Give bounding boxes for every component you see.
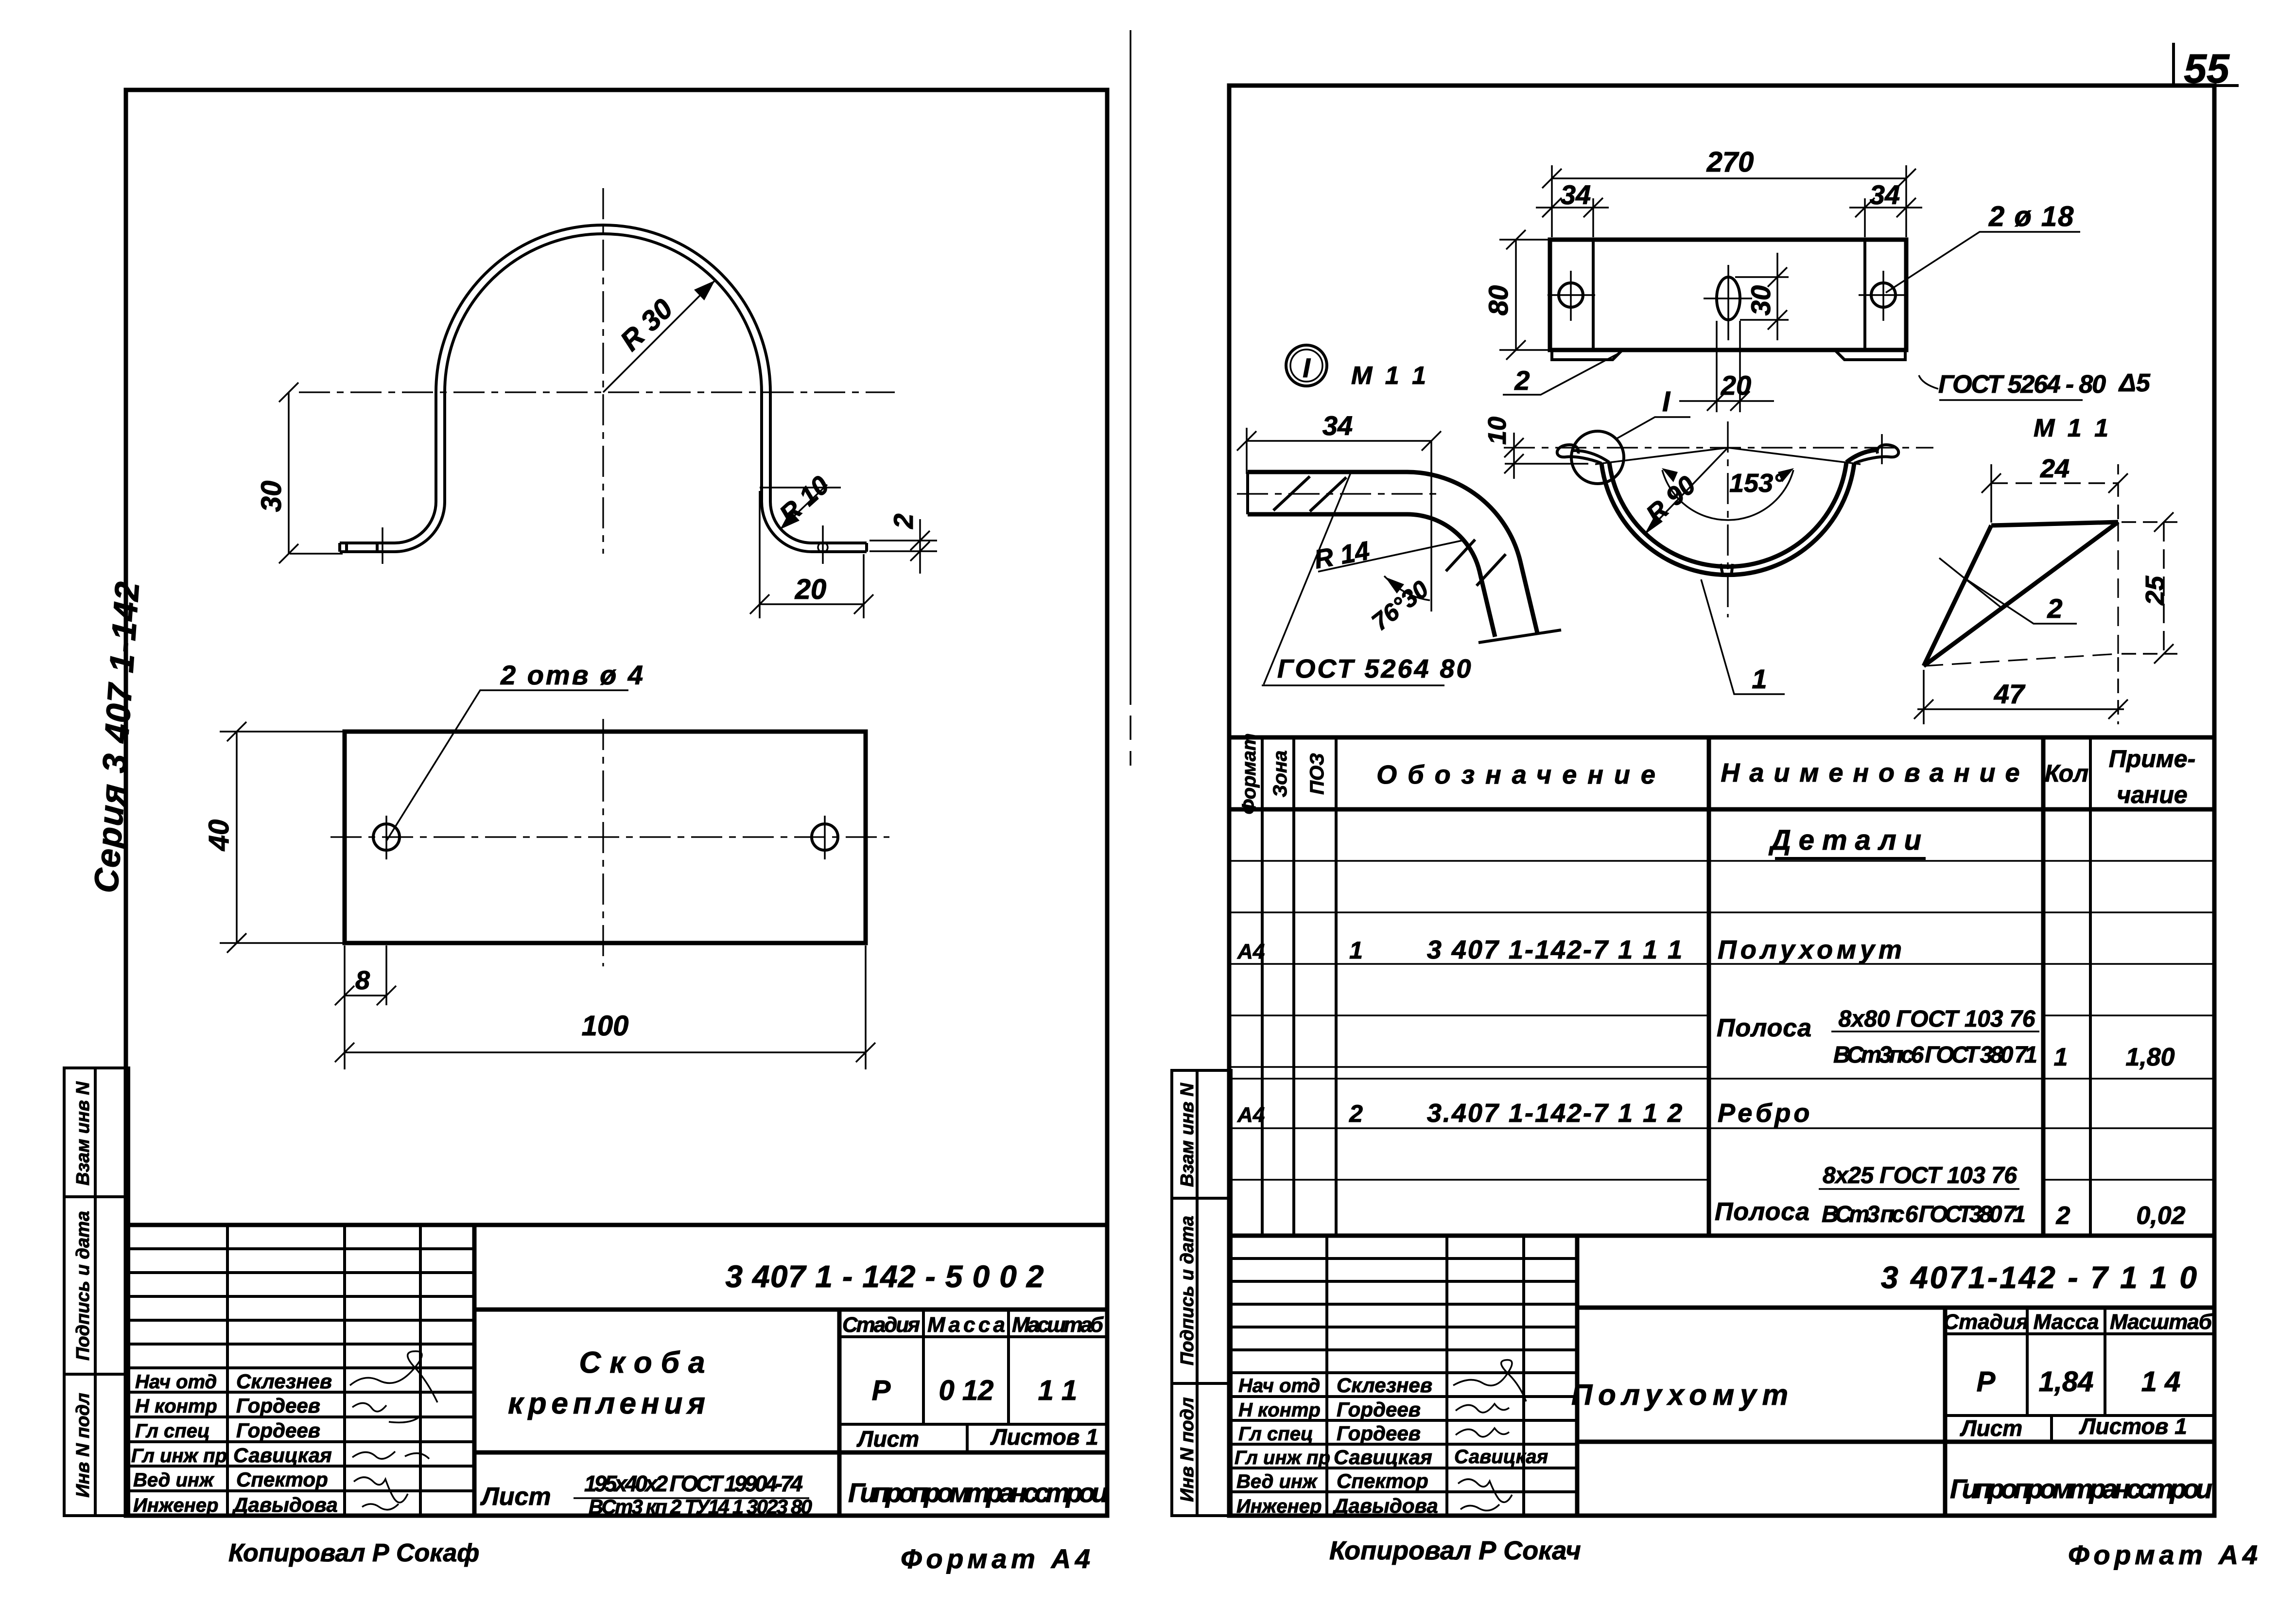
svg-text:3 407 1-142-7 1 1 1: 3 407 1-142-7 1 1 1 <box>1427 935 1684 964</box>
svg-text:Давыдова: Давыдова <box>232 1493 338 1516</box>
svg-text:Ребро: Ребро <box>1718 1099 1812 1128</box>
row line 6 <box>1231 1078 2214 1080</box>
svg-text:Н контр: Н контр <box>1238 1399 1321 1421</box>
detail mark I circle <box>1286 345 1327 386</box>
масса col line <box>2104 1308 2106 1416</box>
dim 100 extension left <box>344 945 346 1069</box>
angle arc 153 <box>1662 470 1793 520</box>
dim 30 line <box>288 392 290 554</box>
svg-text:Гл инж пр: Гл инж пр <box>1235 1447 1330 1468</box>
bottom right weld tab <box>1835 350 1905 360</box>
dim 20 slot extension left <box>1716 321 1718 412</box>
svg-text:Инв N подл: Инв N подл <box>1177 1397 1198 1502</box>
row line 1 <box>1231 860 2214 862</box>
dim 47 ext left <box>1923 670 1925 724</box>
dim 270 extension left <box>1551 165 1553 237</box>
col Примечание line <box>2089 737 2092 1236</box>
signature area top line <box>126 1366 474 1369</box>
dim 25 arrow slashes <box>2154 512 2174 532</box>
svg-text:Вед инж: Вед инж <box>133 1469 215 1491</box>
svg-text:8х25 ГОСТ 103 76: 8х25 ГОСТ 103 76 <box>1823 1163 2017 1189</box>
svg-text:Кол: Кол <box>2045 760 2088 787</box>
R30 radius line <box>603 280 715 392</box>
R10 extension line <box>760 487 841 489</box>
svg-text:ГОСТ 5264 80: ГОСТ 5264 80 <box>1277 654 1473 683</box>
svg-text:2: 2 <box>2047 593 2062 624</box>
svg-text:Листов 1: Листов 1 <box>990 1424 1098 1450</box>
svg-text:Масса: Масса <box>927 1313 1005 1337</box>
page number 55 <box>2168 43 2239 91</box>
signature squiggle 1 <box>1453 1360 1526 1401</box>
svg-text:47: 47 <box>1994 679 2026 709</box>
svg-text:20: 20 <box>1721 370 1751 401</box>
ГОСТ 5264 80 underline <box>1262 684 1444 686</box>
стадия col line <box>922 1310 925 1424</box>
dim 47 arrow slashes <box>1914 699 1933 719</box>
signature squiggle 6 <box>1461 1504 1499 1511</box>
svg-text:Склезнев: Склезнев <box>236 1370 332 1393</box>
label 2 cross tick <box>1939 558 2002 609</box>
right tab inner line <box>1863 240 1866 350</box>
dim 40 extension top <box>220 731 346 733</box>
signature squiggle 3 <box>1456 1428 1509 1437</box>
sheet 2 left margin stamp boxes <box>1172 1070 1231 1516</box>
left hole tick <box>385 816 387 859</box>
svg-text:Масштаб: Масштаб <box>2110 1310 2213 1334</box>
dim 2 extension bottom <box>870 550 937 552</box>
dim 80 extension bottom <box>1499 349 1551 351</box>
R90 radius line <box>1644 448 1728 535</box>
angle radius line left <box>1595 448 1728 464</box>
detail circle leader <box>1616 417 1690 439</box>
dim 20 line <box>760 603 864 605</box>
svg-text:1: 1 <box>1349 937 1363 964</box>
svg-text:М 1 1: М 1 1 <box>2034 414 2111 442</box>
svg-text:Полоса: Полоса <box>1717 1014 1811 1042</box>
dim 20 arrow slashes <box>750 594 769 614</box>
right foot hole centerline tick <box>822 525 824 564</box>
dim 40 extension bottom <box>220 942 346 944</box>
bar top edge <box>1248 470 1406 474</box>
dim 2 line <box>919 519 921 574</box>
signature squiggle 2 <box>1456 1404 1509 1413</box>
signature squiggle 1 <box>350 1351 437 1402</box>
sidebar row line 2 <box>64 1373 129 1376</box>
dim 10 line <box>1513 433 1515 479</box>
material fraction bar <box>574 1497 809 1499</box>
svg-text:20: 20 <box>795 574 827 605</box>
dim 24 arrow slashes <box>1982 473 2001 493</box>
dim 8 arrow slashes <box>335 986 354 1005</box>
svg-text:Гипропромтрансстрои: Гипропромтрансстрои <box>848 1477 1108 1508</box>
angle arrow <box>1385 577 1404 594</box>
svg-text:Спектор: Спектор <box>236 1468 328 1491</box>
svg-text:Детали: Детали <box>1768 824 1929 856</box>
dim 34 right extension <box>1864 198 1866 237</box>
svg-text:Формат А4: Формат А4 <box>2068 1539 2258 1570</box>
svg-text:Листов 1: Листов 1 <box>2079 1414 2187 1439</box>
svg-text:195х40х2 ГОСТ 19904-74: 195х40х2 ГОСТ 19904-74 <box>584 1471 803 1496</box>
signature area top line <box>1231 1371 1577 1374</box>
svg-text:Формат А4: Формат А4 <box>901 1543 1090 1574</box>
svg-text:ВСт3 пс 6 ГОСТ380 71: ВСт3 пс 6 ГОСТ380 71 <box>1822 1202 2026 1227</box>
dim 34 left line <box>1536 207 1609 209</box>
row line 4 left part <box>1231 1014 1709 1016</box>
svg-text:8х80 ГОСТ 103 76: 8х80 ГОСТ 103 76 <box>1839 1006 2035 1032</box>
svg-text:Полухомут: Полухомут <box>1718 935 1906 964</box>
svg-text:80: 80 <box>1483 285 1513 315</box>
column line names/signs <box>343 1225 346 1516</box>
right hole tick <box>824 816 826 859</box>
rib diagonal <box>1924 522 2118 666</box>
signature squiggle 4 <box>352 1451 429 1459</box>
лист/листов divider <box>966 1424 969 1452</box>
svg-text:I: I <box>1303 352 1311 383</box>
svg-text:Инженер: Инженер <box>1236 1496 1322 1517</box>
header bottom line <box>1231 807 2214 812</box>
dim 10 arrow slashes <box>1504 438 1524 457</box>
svg-text:Копировал Р Сокач: Копировал Р Сокач <box>1329 1536 1581 1565</box>
half-clamp front view (bowl) <box>1483 386 1933 694</box>
dim 20 extension left <box>759 491 761 618</box>
sidebar row line 1 <box>64 1195 129 1198</box>
R30 arrowhead <box>694 280 715 300</box>
dim 80 extension top <box>1499 239 1551 241</box>
dim 30 slot extension top <box>1735 276 1789 278</box>
sheet 2 title block <box>1231 1236 2214 1517</box>
designation cell bottom line <box>474 1308 1107 1312</box>
dim 30 slot line <box>1776 253 1778 340</box>
plate outline <box>1550 240 1906 350</box>
bend end cut line <box>1478 630 1561 643</box>
row line 7 <box>1231 1127 2214 1129</box>
svg-text:Инв N подл: Инв N подл <box>73 1393 93 1497</box>
svg-text:10: 10 <box>1483 417 1512 445</box>
svg-text:Гл инж пр: Гл инж пр <box>131 1445 227 1467</box>
svg-text:1 4: 1 4 <box>2141 1366 2181 1398</box>
svg-text:25: 25 <box>2140 576 2170 606</box>
dim 270 arrow slashes <box>1542 169 1562 188</box>
svg-text:Подпись и дата: Подпись и дата <box>1177 1216 1198 1365</box>
svg-text:Масштаб: Масштаб <box>1012 1313 1104 1337</box>
стадия values bottom <box>1945 1414 2214 1417</box>
fold divider line between sheets <box>1130 30 1131 766</box>
omega clamp drawing (Скоба) <box>256 188 937 618</box>
right hole <box>812 824 838 850</box>
signature row lines <box>1231 1395 1577 1398</box>
svg-text:Давыдова: Давыдова <box>1332 1494 1438 1517</box>
svg-text:Р: Р <box>872 1375 891 1406</box>
dim 10 ext line <box>1505 463 1588 465</box>
column line roles/names <box>226 1225 229 1516</box>
row line 2 <box>1231 911 2214 913</box>
svg-text:Копировал Р Сокаф: Копировал Р Сокаф <box>228 1539 479 1567</box>
right hole <box>1871 283 1896 307</box>
svg-text:Взам инв N: Взам инв N <box>1177 1083 1198 1187</box>
dim 80 arrow slashes <box>1506 230 1526 249</box>
svg-text:Спектор: Спектор <box>1337 1469 1428 1492</box>
column line signs/dates <box>419 1225 422 1516</box>
rib bottom edge dashed <box>1924 654 2118 666</box>
dim 24 ext left <box>1990 464 1992 523</box>
bottom left weld tab <box>1552 350 1622 360</box>
svg-text:2: 2 <box>1514 365 1530 396</box>
right foot end cap <box>865 543 868 552</box>
dim 2 extension top <box>870 540 937 542</box>
R10 arrowhead <box>780 510 800 529</box>
left foot end cap <box>338 543 341 552</box>
svg-text:Гордеев: Гордеев <box>236 1419 320 1442</box>
dim 30 extension line bottom <box>290 553 343 555</box>
svg-text:Гордеев: Гордеев <box>1337 1422 1421 1445</box>
svg-text:ВСт3 кп 2 ТУ14 1 3023 80: ВСт3 кп 2 ТУ14 1 3023 80 <box>589 1495 812 1518</box>
label 2 отв ф4 leader <box>386 690 628 841</box>
svg-text:Склезнев: Склезнев <box>1337 1374 1432 1397</box>
svg-text:2 отв ø 4: 2 отв ø 4 <box>500 660 645 690</box>
bowl outer arc <box>1601 463 1854 575</box>
title block top line <box>126 1223 1107 1227</box>
dim 30 slot extension bottom <box>1740 319 1789 321</box>
svg-text:0 12: 0 12 <box>939 1375 994 1406</box>
dim 2 arrow slashes <box>910 531 930 550</box>
dim 20 extension right <box>863 554 865 618</box>
svg-text:М 1 1: М 1 1 <box>1351 362 1429 390</box>
column line roles/names <box>1325 1236 1328 1516</box>
col Поз line <box>1335 737 1338 1236</box>
left hole crosshair <box>1548 294 1595 296</box>
label 2ф18 leader <box>1886 232 2080 293</box>
svg-text:Формат: Формат <box>1238 734 1260 815</box>
svg-text:Обозначение: Обозначение <box>1376 760 1666 789</box>
bowl inner arc <box>1609 462 1846 567</box>
horizontal centerline <box>1504 447 1933 448</box>
sheet 1 left margin stamp boxes <box>64 1068 129 1516</box>
signature row lines <box>126 1391 474 1394</box>
R90 arrowhead <box>1644 514 1663 535</box>
svg-text:чание: чание <box>2117 781 2188 808</box>
svg-text:I: I <box>1662 386 1671 418</box>
svg-text:8: 8 <box>355 966 370 995</box>
right hole crosshair <box>1859 294 1908 296</box>
name/stage divider vertical <box>837 1310 842 1516</box>
лист/листов divider <box>2050 1416 2053 1442</box>
specification table <box>1231 734 2214 1236</box>
plate outline <box>345 732 866 943</box>
dim 47 ext right <box>2117 657 2119 724</box>
signature squiggle 5 <box>1458 1479 1512 1502</box>
svg-text:Наименование: Наименование <box>1721 758 2029 787</box>
svg-text:30: 30 <box>1745 285 1776 315</box>
bar left cap <box>1246 472 1249 514</box>
svg-text:30: 30 <box>256 481 287 512</box>
svg-text:34: 34 <box>1561 179 1591 210</box>
dim 40 line <box>236 732 238 943</box>
svg-text:Масса: Масса <box>2033 1310 2099 1334</box>
title block top line <box>1231 1234 2214 1238</box>
svg-text:1: 1 <box>2054 1043 2068 1071</box>
sidebar row line 1 <box>1172 1197 1231 1200</box>
dim 8 extension hole <box>385 945 387 1005</box>
svg-text:Δ5: Δ5 <box>2118 369 2151 397</box>
angle radius line right <box>1728 448 1861 464</box>
dim 100 arrow slashes <box>335 1043 354 1062</box>
svg-text:Полухомут: Полухомут <box>1571 1379 1794 1411</box>
svg-text:1 1: 1 1 <box>1038 1375 1078 1406</box>
стадия header bottom <box>839 1335 1107 1338</box>
svg-text:Гордеев: Гордеев <box>236 1394 320 1417</box>
svg-text:3.407 1-142-7 1 1 2: 3.407 1-142-7 1 1 2 <box>1427 1099 1684 1128</box>
svg-text:Нач отд: Нач отд <box>135 1371 217 1393</box>
sheet 2 drawing frame border <box>1229 86 2214 1516</box>
dim 270 line <box>1552 177 1906 179</box>
dim 100 line <box>345 1051 866 1053</box>
dim 34 right line <box>1849 207 1922 209</box>
svg-text:крепления: крепления <box>508 1387 710 1420</box>
dim 20 slot line <box>1679 400 1774 402</box>
dim 24 line <box>1991 482 2118 484</box>
svg-text:Гордеев: Гордеев <box>1337 1398 1421 1421</box>
масса col line <box>1007 1310 1010 1424</box>
svg-text:Нач отд: Нач отд <box>1238 1375 1320 1397</box>
Детали underline <box>1775 857 1926 860</box>
weld hatch marks on bar <box>1273 476 1310 510</box>
vertical centerline <box>1727 421 1728 617</box>
right tab curl <box>1854 445 1898 463</box>
стадия header bottom <box>1945 1332 2214 1335</box>
col Формат line <box>1261 737 1264 1236</box>
bowl bottom gap tick <box>1721 564 1723 576</box>
svg-text:ГОСТ 5264 - 80: ГОСТ 5264 - 80 <box>1938 370 2106 399</box>
column line signs/dates <box>1522 1236 1525 1516</box>
row line 8 right part <box>2043 1179 2214 1181</box>
label 2 leader <box>1965 578 2077 624</box>
left tab curl <box>1557 445 1601 463</box>
rib hypotenuse <box>1924 525 1991 666</box>
dim 24 ext right tick <box>2117 464 2119 519</box>
signature squiggle 2 <box>352 1403 386 1411</box>
dim 25 ext top <box>2122 521 2177 523</box>
dim 34 arrow slashes <box>1237 431 1256 451</box>
dim 100 extension right <box>865 945 867 1069</box>
sheet 1 title block <box>126 1225 1108 1518</box>
svg-text:Лист: Лист <box>856 1426 919 1451</box>
table top line <box>1231 735 2214 740</box>
svg-text:1,84: 1,84 <box>2039 1366 2094 1398</box>
row1 material fraction bar <box>1831 1031 2039 1032</box>
col Обозначение line <box>1707 737 1711 1236</box>
col Кол line <box>2041 737 2046 1236</box>
signature squiggle 5 <box>354 1477 408 1503</box>
svg-text:270: 270 <box>1706 146 1754 178</box>
clamp inner contour <box>340 234 867 552</box>
angle arc arrow right <box>1778 468 1794 482</box>
angle arc arrow left <box>1662 468 1678 482</box>
rib top edge <box>1991 522 2118 525</box>
angle 76 30 arc <box>1384 576 1430 600</box>
upper empty row lines <box>1231 1257 1577 1260</box>
dim 8 line <box>345 995 386 996</box>
left hole <box>1559 283 1583 307</box>
dim 34 left extension <box>1592 198 1594 237</box>
svg-text:2: 2 <box>1349 1100 1363 1127</box>
svg-text:Скоба: Скоба <box>579 1346 714 1380</box>
dim 80 line <box>1515 240 1517 350</box>
svg-text:Гл спец: Гл спец <box>1238 1423 1313 1445</box>
svg-text:2: 2 <box>2056 1202 2070 1230</box>
svg-text:Лист: Лист <box>480 1483 551 1511</box>
svg-text:2 ø 18: 2 ø 18 <box>1988 201 2074 232</box>
R14 leader line <box>1318 541 1462 572</box>
svg-text:Н контр: Н контр <box>135 1396 217 1417</box>
dim 34 left arrows <box>1542 198 1562 217</box>
plate horizontal centerline through holes <box>330 836 889 838</box>
slot horizontal tick <box>1704 297 1752 299</box>
sidebar row line 2 <box>1172 1382 1231 1385</box>
svg-text:Р: Р <box>1977 1366 1996 1398</box>
dim 270 extension right <box>1905 165 1907 237</box>
dim 20 slot extension right <box>1739 321 1741 412</box>
svg-text:1: 1 <box>1752 664 1767 694</box>
стадия col line <box>2026 1308 2029 1416</box>
dim 47 line <box>1917 708 2124 710</box>
svg-text:Вед инж: Вед инж <box>1236 1471 1318 1492</box>
svg-text:Гл спец: Гл спец <box>135 1420 210 1442</box>
bar bottom edge <box>1248 512 1400 517</box>
svg-text:24: 24 <box>2040 454 2070 483</box>
plate vertical centerline <box>602 719 604 966</box>
weld note ГОСТ 5264-80 leader hook <box>1919 375 1938 389</box>
detail circle I on left tab <box>1571 431 1624 484</box>
svg-text:А4: А4 <box>1237 940 1265 963</box>
name/stage divider vertical <box>1943 1308 1948 1516</box>
column line big box <box>1575 1236 1580 1516</box>
signature squiggle tail <box>389 1418 418 1422</box>
sidebar divider column line <box>1196 1070 1199 1516</box>
bend inner curve <box>1397 514 1495 637</box>
left foot hole slot caps <box>345 543 348 552</box>
weld note underline <box>1939 399 2083 401</box>
half-clamp top view plate drawing <box>1286 146 2151 412</box>
svg-text:Савицкая: Савицкая <box>233 1444 332 1467</box>
row line 5 left part <box>1231 1066 1709 1068</box>
svg-text:Инженер: Инженер <box>133 1495 218 1516</box>
dim 40 arrow slashes <box>227 722 246 741</box>
лист row bottom <box>1577 1440 2214 1444</box>
row line 8 left part <box>1231 1179 1709 1181</box>
svg-text:0,02: 0,02 <box>2136 1202 2185 1230</box>
left tab inner line <box>1592 240 1595 350</box>
position leader 1 line <box>1701 579 1785 694</box>
column line big box <box>472 1225 477 1516</box>
svg-text:34: 34 <box>1870 179 1900 210</box>
svg-text:А4: А4 <box>1237 1103 1265 1127</box>
right foot hole circle <box>818 542 828 552</box>
horizontal centerline <box>299 391 895 393</box>
left hole <box>373 824 400 850</box>
svg-text:ВСт3пс6 ГОСТ 380 71: ВСт3пс6 ГОСТ 380 71 <box>1833 1042 2037 1068</box>
svg-text:153°: 153° <box>1729 469 1784 498</box>
svg-text:100: 100 <box>582 1010 629 1042</box>
col Зона line <box>1292 737 1295 1236</box>
svg-text:1,80: 1,80 <box>2125 1043 2174 1071</box>
column line names/signs <box>1445 1236 1448 1516</box>
vertical extension for angle <box>1430 441 1432 612</box>
dim 34 line <box>1247 440 1431 442</box>
ГОСТ 5264 80 leader <box>1264 473 1351 684</box>
svg-text:Савицкая: Савицкая <box>1334 1446 1432 1468</box>
svg-text:Лист: Лист <box>1960 1416 2022 1441</box>
dim 30 arrow slashes <box>1768 267 1787 287</box>
